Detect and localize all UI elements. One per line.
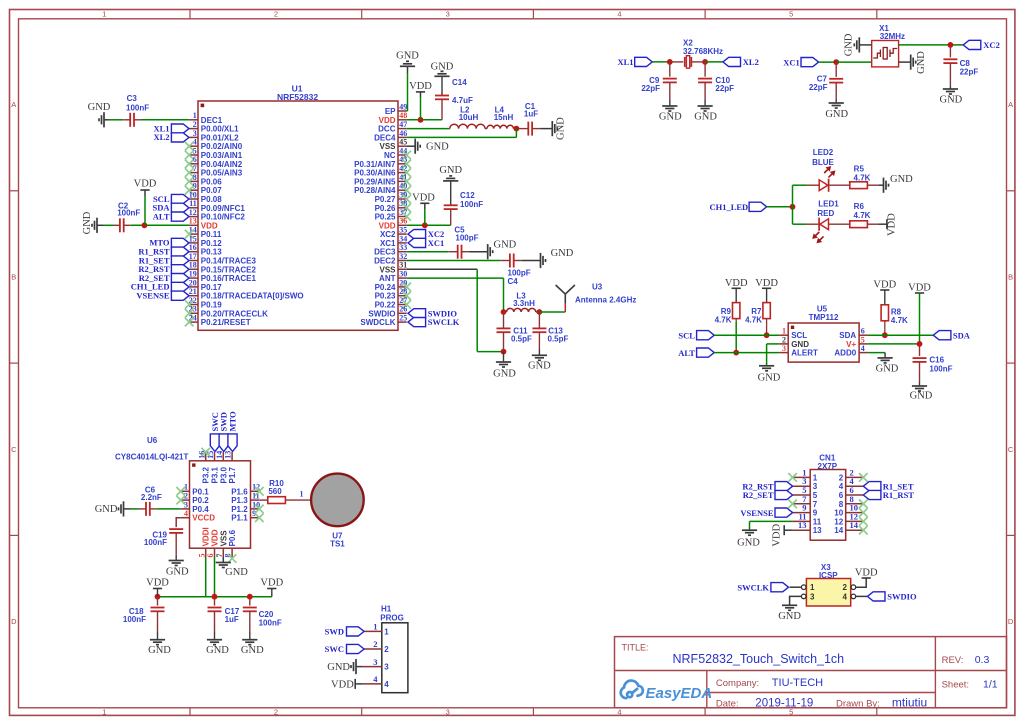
svg-text:P1.6: P1.6 [231,487,248,496]
svg-text:1: 1 [102,707,106,716]
svg-text:GND: GND [758,372,781,383]
svg-text:DEC1: DEC1 [201,116,223,125]
svg-text:P0.26: P0.26 [375,204,396,213]
svg-text:VSS: VSS [379,265,396,274]
svg-text:36: 36 [399,217,407,226]
svg-text:13: 13 [798,520,807,530]
svg-text:P0.21/RESET: P0.21/RESET [201,318,251,327]
svg-text:P0.01/XL2: P0.01/XL2 [201,133,239,142]
svg-text:5: 5 [789,10,793,19]
svg-text:4.7uF: 4.7uF [452,96,473,105]
svg-text:30: 30 [399,270,407,279]
svg-text:P0.2: P0.2 [192,496,209,505]
svg-text:3: 3 [384,663,389,672]
svg-text:B: B [11,273,16,282]
svg-text:P0.05/AIN3: P0.05/AIN3 [201,169,243,178]
svg-text:4.7K: 4.7K [891,316,908,325]
svg-text:P0.25: P0.25 [375,213,396,222]
svg-text:14: 14 [834,526,843,535]
svg-text:DCC: DCC [378,125,396,134]
svg-text:P0.03/AIN1: P0.03/AIN1 [201,151,243,160]
svg-text:P3.1: P3.1 [211,466,220,483]
svg-text:A: A [11,100,16,109]
svg-text:P3.0: P3.0 [219,466,228,483]
svg-text:P0.22: P0.22 [375,301,396,310]
svg-text:2: 2 [193,120,197,129]
svg-text:2: 2 [373,639,377,649]
svg-text:13: 13 [224,451,233,459]
svg-text:GND: GND [791,340,809,349]
svg-text:GND: GND [439,165,462,176]
svg-text:P0.08: P0.08 [201,195,222,204]
svg-text:R2_SET: R2_SET [743,490,774,500]
svg-text:22pF: 22pF [809,83,828,92]
svg-text:0.5pF: 0.5pF [511,334,532,343]
svg-text:P0.29/AIN5: P0.29/AIN5 [354,177,396,186]
svg-text:32MHz: 32MHz [880,32,905,41]
svg-text:3: 3 [193,129,197,138]
svg-text:0.3: 0.3 [975,654,990,666]
svg-text:U3: U3 [592,282,603,291]
svg-text:100nF: 100nF [117,209,140,218]
svg-text:VDDI: VDDI [202,527,211,546]
svg-text:25: 25 [399,314,407,323]
svg-text:P0.23: P0.23 [375,292,396,301]
svg-text:GND: GND [88,102,111,113]
svg-text:SCL: SCL [791,331,807,340]
svg-text:GND: GND [556,117,567,140]
svg-text:3: 3 [446,10,450,19]
svg-text:2: 2 [842,583,847,592]
svg-text:LED2: LED2 [813,148,834,157]
svg-text:2.2nF: 2.2nF [141,493,162,502]
svg-text:R6: R6 [854,202,865,211]
svg-text:1: 1 [384,627,389,636]
svg-text:5: 5 [197,554,206,558]
svg-text:4: 4 [861,344,865,353]
svg-text:R5: R5 [854,165,865,174]
svg-text:GND: GND [426,142,449,153]
svg-text:0.5pF: 0.5pF [548,334,569,343]
svg-text:GND: GND [737,538,760,549]
svg-text:Company:: Company: [716,678,759,689]
svg-text:1/1: 1/1 [983,679,998,691]
svg-text:VDD: VDD [211,529,220,546]
svg-text:2: 2 [274,10,278,19]
svg-text:560: 560 [268,487,282,496]
svg-text:6: 6 [861,327,865,336]
svg-text:2X7P: 2X7P [818,462,838,471]
svg-text:35: 35 [399,226,407,235]
svg-text:1: 1 [102,10,106,19]
svg-text:VDD: VDD [873,279,896,290]
svg-text:P0.15/TRACE2: P0.15/TRACE2 [201,265,257,274]
svg-text:100nF: 100nF [123,615,146,624]
svg-text:DEC4: DEC4 [374,133,396,142]
svg-text:GND: GND [166,566,189,577]
svg-text:VDD: VDD [260,578,283,589]
svg-text:P0.30/AIN6: P0.30/AIN6 [354,169,396,178]
svg-text:P1.2: P1.2 [231,505,248,514]
svg-text:Date:: Date: [716,698,739,709]
svg-text:EP: EP [385,107,396,116]
svg-text:VDD: VDD [755,278,778,289]
svg-text:19: 19 [189,270,197,279]
svg-text:1: 1 [193,111,197,120]
svg-text:9: 9 [813,509,818,518]
svg-text:DEC3: DEC3 [374,248,396,257]
svg-text:7: 7 [813,500,818,509]
svg-text:PROG: PROG [380,613,404,622]
svg-text:P0.27: P0.27 [375,195,396,204]
svg-text:4: 4 [617,10,621,19]
svg-text:VSENSE: VSENSE [740,508,773,518]
svg-text:TIU-TECH: TIU-TECH [772,677,823,689]
svg-text:P1.3: P1.3 [231,496,248,505]
svg-text:P0.24: P0.24 [375,283,396,292]
svg-text:GND: GND [916,51,927,74]
svg-text:22pF: 22pF [715,84,734,93]
svg-text:P0.13: P0.13 [201,248,222,257]
svg-text:NC: NC [384,151,396,160]
svg-text:SWCLK: SWCLK [428,317,460,327]
svg-text:VSENSE: VSENSE [136,291,169,301]
svg-text:34: 34 [399,234,407,243]
svg-text:VDD: VDD [409,81,432,92]
svg-text:2019-11-19: 2019-11-19 [755,697,813,709]
svg-text:TMP112: TMP112 [809,313,839,322]
svg-text:GND: GND [528,360,551,371]
svg-text:10: 10 [189,190,197,199]
svg-text:D: D [1008,617,1014,626]
svg-text:GND: GND [327,662,350,673]
svg-text:GND: GND [82,211,93,234]
svg-text:Antenna 2.4GHz: Antenna 2.4GHz [575,295,636,304]
svg-text:15: 15 [189,234,197,243]
svg-text:SDA: SDA [953,330,971,340]
svg-text:1uF: 1uF [225,615,239,624]
svg-text:XC2: XC2 [983,40,1000,50]
svg-text:GND: GND [493,368,516,379]
svg-text:14: 14 [850,520,859,530]
svg-text:P0.31/AIN7: P0.31/AIN7 [354,160,396,169]
svg-text:1: 1 [813,473,818,482]
svg-text:P0.10/NFC2: P0.10/NFC2 [201,213,246,222]
svg-text:1: 1 [782,327,786,336]
svg-text:5: 5 [813,491,818,500]
svg-text:P0.12: P0.12 [201,239,222,248]
svg-text:VDD: VDD [772,523,783,546]
svg-text:C4: C4 [508,277,519,286]
svg-text:3: 3 [446,707,450,716]
svg-text:D: D [11,617,17,626]
svg-text:11: 11 [189,199,197,208]
svg-text:4.7K: 4.7K [715,315,732,324]
svg-text:5: 5 [861,335,865,344]
svg-text:12: 12 [834,517,843,526]
svg-text:100nF: 100nF [460,200,483,209]
svg-text:20: 20 [189,278,197,287]
svg-text:XC2: XC2 [380,230,396,239]
svg-text:GND: GND [494,239,517,250]
svg-text:Drawn By:: Drawn By: [836,698,880,709]
svg-text:P0.19: P0.19 [201,301,222,310]
svg-text:26: 26 [399,305,407,314]
svg-text:GND: GND [206,645,229,656]
svg-text:VDD: VDD [134,179,157,190]
svg-text:11: 11 [813,517,822,526]
svg-text:VSS: VSS [379,142,396,151]
svg-text:100pF: 100pF [455,234,478,243]
svg-text:17: 17 [189,252,197,261]
svg-text:2: 2 [839,473,844,482]
svg-text:100nF: 100nF [144,538,167,547]
svg-text:32.768KHz: 32.768KHz [683,47,723,56]
svg-text:P0.07: P0.07 [201,186,222,195]
svg-text:NRF52832_Touch_Switch_1ch: NRF52832_Touch_Switch_1ch [673,652,845,666]
svg-text:C12: C12 [460,191,475,200]
svg-text:GND: GND [659,112,682,123]
svg-text:TS1: TS1 [330,539,345,548]
svg-text:GND: GND [551,248,574,259]
svg-text:SWDIO: SWDIO [368,309,395,318]
svg-text:ADD0: ADD0 [834,349,856,358]
svg-text:100nF: 100nF [929,365,952,374]
svg-text:48: 48 [399,111,407,120]
svg-text:P0.04/AIN2: P0.04/AIN2 [201,160,243,169]
svg-text:45: 45 [399,138,407,147]
svg-text:1uF: 1uF [524,109,538,118]
svg-text:P0.28/AIN4: P0.28/AIN4 [354,186,396,195]
svg-text:6: 6 [839,491,844,500]
svg-text:33: 33 [399,243,407,252]
svg-text:SCL: SCL [678,330,695,340]
svg-text:XC1: XC1 [380,239,396,248]
svg-text:22pF: 22pF [641,84,660,93]
svg-text:VCCD: VCCD [192,514,215,523]
svg-text:10uH: 10uH [459,113,479,122]
svg-text:4: 4 [839,482,844,491]
svg-text:P0.02/AIN0: P0.02/AIN0 [201,142,243,151]
svg-text:GND: GND [825,109,848,120]
svg-text:ICSP: ICSP [819,571,838,580]
svg-text:2: 2 [274,707,278,716]
svg-text:GND: GND [95,504,118,515]
svg-text:10: 10 [834,509,843,518]
svg-text:13: 13 [189,217,197,226]
svg-text:P0.06: P0.06 [201,177,222,186]
svg-text:15nH: 15nH [494,113,514,122]
svg-text:A: A [1008,100,1013,109]
svg-text:P0.1: P0.1 [192,487,209,496]
svg-text:P0.14/TRACE3: P0.14/TRACE3 [201,257,257,266]
svg-text:VDD: VDD [146,578,169,589]
svg-text:GND: GND [890,174,913,185]
svg-text:C16: C16 [929,355,944,364]
svg-text:47: 47 [399,120,407,129]
svg-text:3: 3 [810,592,815,601]
svg-text:1: 1 [373,622,377,632]
svg-text:GND: GND [431,61,454,72]
svg-text:ALT: ALT [678,348,695,358]
svg-text:VDD: VDD [379,221,396,230]
svg-text:4.7K: 4.7K [854,211,871,220]
svg-text:XL2: XL2 [743,57,759,67]
svg-text:P3.2: P3.2 [202,466,211,483]
svg-text:P1.1: P1.1 [231,514,248,523]
svg-text:1: 1 [810,583,815,592]
svg-text:18: 18 [189,261,197,270]
svg-text:VDD: VDD [908,282,931,293]
svg-text:4: 4 [842,592,847,601]
svg-text:4.7K: 4.7K [745,315,762,324]
svg-text:3.3nH: 3.3nH [513,299,535,308]
svg-text:VDD: VDD [379,116,396,125]
svg-text:4.7K: 4.7K [854,174,871,183]
svg-text:B: B [1008,273,1013,282]
svg-text:LED1: LED1 [818,200,839,209]
svg-text:TITLE:: TITLE: [622,643,649,653]
svg-text:GND: GND [241,645,264,656]
svg-text:P0.00/XL1: P0.00/XL1 [201,125,239,134]
svg-text:SWC: SWC [325,644,344,654]
svg-text:Sheet:: Sheet: [942,680,969,691]
svg-text:EasyEDA: EasyEDA [646,685,713,702]
svg-text:SDA: SDA [839,331,856,340]
svg-text:SWDCLK: SWDCLK [360,318,395,327]
svg-text:V+: V+ [846,340,856,349]
svg-text:GND: GND [940,95,963,106]
svg-text:4: 4 [184,509,188,518]
svg-text:100nF: 100nF [126,103,149,112]
svg-text:ALERT: ALERT [791,349,818,358]
svg-text:4: 4 [617,707,621,716]
svg-text:C: C [1008,445,1014,454]
svg-text:MTO: MTO [228,411,238,432]
svg-text:VDD: VDD [412,192,435,203]
svg-text:4: 4 [384,680,389,689]
svg-text:GND: GND [876,364,899,375]
svg-text:C: C [11,445,17,454]
svg-text:XC1: XC1 [428,238,445,248]
svg-text:VDD: VDD [725,278,748,289]
svg-text:8: 8 [839,500,844,509]
svg-text:CY8C4014LQI-421T: CY8C4014LQI-421T [115,452,188,461]
svg-text:GND: GND [225,567,248,578]
svg-text:CH1_LED: CH1_LED [709,202,748,212]
svg-text:6: 6 [206,554,215,558]
svg-text:P0.09/NFC1: P0.09/NFC1 [201,204,246,213]
svg-text:P0.4: P0.4 [192,505,209,514]
svg-text:2: 2 [384,645,389,654]
svg-text:RED: RED [817,209,834,218]
svg-text:13: 13 [813,526,822,535]
svg-text:P0.18/TRACEDATA[0]/SWO: P0.18/TRACEDATA[0]/SWO [201,292,304,301]
svg-text:GND: GND [778,611,801,622]
svg-text:VDD: VDD [201,221,218,230]
svg-text:49: 49 [399,102,407,111]
svg-text:REV:: REV: [942,655,964,666]
svg-text:P0.11: P0.11 [201,230,222,239]
svg-text:100nF: 100nF [259,618,282,627]
svg-text:SWD: SWD [325,627,344,637]
svg-text:P0.17: P0.17 [201,283,222,292]
svg-text:C3: C3 [127,94,138,103]
svg-text:SWDIO: SWDIO [887,592,917,602]
svg-text:P1.7: P1.7 [228,466,237,483]
svg-text:32: 32 [399,252,407,261]
svg-text:22pF: 22pF [960,67,979,76]
svg-text:P0.16/TRACE1: P0.16/TRACE1 [201,274,257,283]
svg-text:ALT: ALT [153,211,170,221]
svg-text:31: 31 [399,261,407,270]
svg-text:XL1: XL1 [617,57,633,67]
svg-text:mtiutiu: mtiutiu [892,695,927,709]
svg-text:ANT: ANT [379,274,396,283]
svg-text:P0.6: P0.6 [228,529,237,546]
svg-text:GND: GND [396,51,419,62]
svg-text:DEC2: DEC2 [374,257,396,266]
svg-text:7: 7 [215,554,224,558]
svg-text:3: 3 [373,657,377,667]
svg-text:GND: GND [844,33,855,56]
svg-text:XL2: XL2 [153,132,169,142]
svg-text:NRF52832: NRF52832 [277,92,318,102]
svg-text:3: 3 [813,482,818,491]
svg-text:P0.20/TRACECLK: P0.20/TRACECLK [201,309,268,318]
svg-text:VDD: VDD [855,568,878,579]
svg-text:21: 21 [189,287,197,296]
svg-text:C14: C14 [452,78,467,87]
svg-text:VDD: VDD [331,679,354,690]
svg-text:GND: GND [694,112,717,123]
svg-text:XC1: XC1 [783,57,800,67]
svg-text:2: 2 [782,335,786,344]
svg-text:GND: GND [148,645,171,656]
svg-text:14: 14 [215,451,224,459]
svg-text:16: 16 [189,243,197,252]
svg-text:SWCLK: SWCLK [737,582,769,592]
svg-text:VSS: VSS [219,530,228,547]
svg-text:GND: GND [910,391,933,402]
svg-text:1: 1 [300,490,304,499]
svg-text:VDD: VDD [886,213,897,236]
svg-text:U6: U6 [147,436,158,445]
svg-text:3: 3 [782,344,786,353]
svg-text:12: 12 [189,208,197,217]
svg-text:BLUE: BLUE [812,158,834,167]
svg-text:R1_RST: R1_RST [883,490,915,500]
svg-text:46: 46 [399,129,407,138]
